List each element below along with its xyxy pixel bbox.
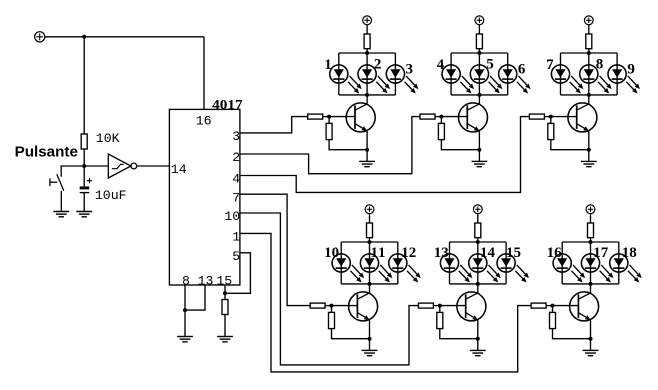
svg-text:4017: 4017 — [212, 98, 243, 113]
svg-text:16: 16 — [547, 245, 563, 261]
wire supply to R 10K — [83, 37, 85, 134]
resistor base group 1 — [308, 114, 323, 119]
node base Q2 — [439, 115, 443, 119]
resistor LED supply group 3 — [586, 34, 592, 49]
power supply symbol +V group 6 — [586, 205, 595, 214]
wire LED D17 branch — [590, 242, 592, 284]
wire resistor to LED rail group 2 — [478, 49, 480, 53]
wire LED D6 branch — [507, 53, 509, 95]
wire node to pulldown resistor group 3 — [550, 117, 552, 124]
wire main supply rail — [45, 36, 204, 38]
svg-text:6: 6 — [518, 62, 526, 78]
ground button — [53, 212, 69, 217]
wire resistor to LED rail group 3 — [588, 49, 590, 53]
wire collector to LED rail Q3 — [588, 95, 590, 104]
LED D8 — [580, 65, 612, 94]
node emitter ground junction Q6 — [589, 337, 593, 341]
ground pin 15 — [217, 337, 233, 342]
LED D2 — [358, 65, 390, 94]
node LED cathode rail group 4 — [341, 282, 398, 286]
node emitter ground junction Q3 — [587, 148, 591, 152]
wire node to pulldown resistor group 2 — [440, 117, 442, 124]
resistor base group 5 — [418, 303, 433, 308]
wire base resistor to node group 1 — [323, 116, 329, 118]
wire emitter node to ground group 1 — [366, 150, 368, 162]
LED D13 — [440, 254, 472, 283]
svg-text:7: 7 — [232, 190, 240, 205]
node LED cathode rail group 3 — [561, 93, 618, 97]
LED D1 — [330, 65, 362, 94]
wire resistor to LED rail group 6 — [590, 238, 592, 242]
wire pin 10 to Q5 base resistor — [240, 213, 419, 365]
resistor LED supply group 2 — [476, 34, 482, 49]
wire base resistor to node group 6 — [546, 305, 552, 307]
wire pulldown to emitter rail group 6 — [553, 329, 591, 339]
node LED cathode rail group 1 — [339, 93, 396, 97]
node LED cathode rail group 5 — [450, 282, 507, 286]
wire LED D18 branch — [618, 242, 620, 284]
wire node to base Q5 — [440, 305, 466, 307]
wire LED D15 branch — [505, 242, 507, 284]
svg-text:7: 7 — [546, 57, 554, 73]
LED D4 — [442, 65, 474, 94]
power supply symbol +V group 1 — [363, 16, 372, 25]
svg-text:12: 12 — [401, 245, 416, 261]
svg-text:10: 10 — [224, 209, 240, 224]
svg-text:Pulsante: Pulsante — [15, 143, 78, 160]
wire emitter Q3 — [588, 130, 590, 149]
resistor base pulldown group 5 — [437, 312, 443, 328]
resistor 10K — [81, 134, 87, 149]
node base Q3 — [549, 115, 553, 119]
resistor base group 2 — [420, 114, 435, 119]
resistor LED supply group 6 — [588, 223, 594, 238]
svg-text:1: 1 — [232, 230, 240, 245]
node emitter ground junction Q2 — [477, 148, 481, 152]
node base Q1 — [327, 115, 331, 119]
wire node to pulldown resistor group 5 — [439, 306, 441, 313]
LED D11 — [360, 254, 392, 283]
wire emitter node to ground group 3 — [588, 150, 590, 162]
wire LED D12 branch — [397, 242, 399, 284]
svg-text:11: 11 — [371, 245, 386, 261]
wire node to base Q4 — [332, 305, 358, 307]
node LED cathode rail group 6 — [562, 282, 619, 286]
wire pin 2 to Q2 base resistor — [240, 117, 420, 174]
wire LED D9 branch — [616, 53, 618, 95]
resistor base group 4 — [310, 303, 325, 308]
wire emitter node to ground group 2 — [478, 150, 480, 162]
wire power to resistor group 4 — [369, 214, 371, 223]
ground group 1 — [359, 161, 375, 166]
svg-text:10K: 10K — [96, 131, 120, 146]
resistor base pulldown group 4 — [329, 312, 335, 328]
wire power to resistor group 5 — [477, 214, 479, 223]
ground group 6 — [583, 350, 599, 355]
wire resistor to LED rail group 1 — [366, 49, 368, 53]
transistor Q6 — [570, 292, 599, 321]
ground capacitor — [76, 212, 92, 217]
wire pin 7 to Q4 base resistor — [240, 194, 310, 305]
inverter U2 schmitt — [108, 154, 136, 178]
wire base resistor to node group 3 — [544, 116, 550, 118]
resistor base pulldown group 2 — [438, 123, 444, 139]
LED D15 — [497, 254, 529, 283]
svg-text:9: 9 — [627, 62, 635, 78]
svg-text:8: 8 — [182, 274, 190, 289]
transistor Q1 — [346, 103, 375, 132]
node pin 15 junction — [223, 291, 227, 295]
wire LED D14 branch — [477, 242, 479, 284]
node LED cathode rail group 2 — [451, 93, 508, 97]
LED D17 — [581, 254, 613, 283]
svg-text:17: 17 — [593, 245, 609, 261]
wire emitter node to ground group 4 — [369, 339, 371, 351]
svg-text:3: 3 — [405, 62, 413, 78]
wire node to capacitor — [83, 166, 85, 186]
wire LED D4 branch — [450, 53, 452, 95]
svg-text:14: 14 — [171, 162, 187, 177]
LED D6 — [499, 65, 531, 94]
transistor Q4 — [349, 292, 378, 321]
wire node to base Q2 — [441, 116, 467, 118]
LED D9 — [608, 65, 640, 94]
wire resistor to ground pin 15 — [224, 315, 226, 337]
wire pulldown to emitter rail group 2 — [441, 140, 479, 150]
wire collector to LED rail Q4 — [369, 284, 371, 293]
node button/cap/inverter junction — [82, 164, 86, 168]
node base Q6 — [551, 304, 555, 308]
wire resistor to LED rail group 5 — [477, 238, 479, 242]
wire emitter Q2 — [478, 130, 480, 149]
wire power to resistor group 1 — [366, 25, 368, 34]
wire LED D2 branch — [366, 53, 368, 95]
wire node to inverter input — [84, 165, 108, 167]
resistor LED supply group 4 — [367, 223, 373, 238]
ground pin 8 — [177, 337, 193, 342]
node LED anode rail group 3 — [561, 51, 618, 55]
svg-text:13: 13 — [434, 245, 449, 261]
wire LED D16 branch — [561, 242, 563, 284]
node emitter ground junction Q4 — [368, 337, 372, 341]
node LED anode rail group 6 — [562, 240, 619, 244]
ground group 5 — [470, 350, 486, 355]
resistor base group 6 — [531, 303, 546, 308]
transistor Q2 — [459, 103, 488, 132]
wire node to base Q1 — [329, 116, 355, 118]
LED D10 — [332, 254, 364, 283]
power supply symbol +V group 2 — [475, 16, 484, 25]
resistor base pulldown group 6 — [550, 312, 556, 328]
wire LED D5 branch — [478, 53, 480, 95]
wire pulldown to emitter rail group 1 — [329, 140, 367, 150]
node base Q4 — [330, 304, 334, 308]
wire pin 5 to pin 15 junction — [225, 253, 250, 293]
ground group 4 — [362, 350, 378, 355]
svg-text:4: 4 — [232, 172, 240, 187]
svg-text:5: 5 — [232, 249, 240, 264]
wire power to resistor group 3 — [588, 25, 590, 34]
svg-text:8: 8 — [596, 57, 604, 73]
wire inverter output to pin 14 — [137, 165, 170, 167]
wire node to base Q3 — [551, 116, 577, 118]
wire emitter Q1 — [366, 130, 368, 149]
wire capacitor to ground — [83, 193, 85, 212]
wire emitter node to ground group 6 — [590, 339, 592, 351]
ground group 3 — [581, 161, 597, 166]
LED D14 — [469, 254, 501, 283]
resistor base pulldown group 1 — [326, 123, 332, 139]
power supply symbol +V group 3 — [584, 16, 593, 25]
wire collector to LED rail Q1 — [366, 95, 368, 104]
wire pin 8 to ground — [184, 285, 186, 336]
node LED anode rail group 1 — [339, 51, 396, 55]
wire LED D11 branch — [369, 242, 371, 284]
wire LED D8 branch — [588, 53, 590, 95]
wire pin 3 to Q1 base resistor — [240, 117, 308, 133]
node pin 8/13 junction — [183, 308, 187, 312]
node LED anode rail group 5 — [450, 240, 507, 244]
transistor Q5 — [457, 292, 486, 321]
wire pulldown to emitter rail group 5 — [440, 329, 478, 339]
power supply symbol +V main — [35, 32, 45, 42]
LED D5 — [470, 65, 502, 94]
wire LED D13 branch — [449, 242, 451, 284]
wire emitter Q5 — [477, 319, 479, 338]
svg-text:10uF: 10uF — [95, 188, 127, 203]
wire LED D7 branch — [560, 53, 562, 95]
svg-text:14: 14 — [480, 245, 496, 261]
resistor LED supply group 5 — [475, 223, 481, 238]
wire emitter node to ground group 5 — [477, 339, 479, 351]
svg-text:2: 2 — [232, 150, 240, 165]
wire pin 13 to junction — [185, 285, 205, 310]
power supply symbol +V group 4 — [365, 205, 374, 214]
transistor Q3 — [568, 103, 597, 132]
wire pulldown to emitter rail group 3 — [551, 140, 589, 150]
ground group 2 — [472, 161, 488, 166]
wire pulldown to emitter rail group 4 — [332, 329, 370, 339]
IC U1 4017 body — [169, 109, 240, 285]
svg-text:1: 1 — [324, 57, 332, 73]
svg-text:16: 16 — [196, 114, 212, 129]
LED D7 — [551, 65, 583, 94]
LED D3 — [386, 65, 418, 94]
wire resistor to LED rail group 4 — [369, 238, 371, 242]
node supply junction — [82, 35, 86, 39]
wire node to pulldown resistor group 6 — [552, 306, 554, 313]
wire LED D1 branch — [338, 53, 340, 95]
wire emitter Q6 — [590, 319, 592, 338]
wire collector to LED rail Q6 — [590, 284, 592, 293]
wire LED D10 branch — [340, 242, 342, 284]
svg-text:3: 3 — [232, 129, 240, 144]
LED D16 — [553, 254, 585, 283]
node LED anode rail group 2 — [451, 51, 508, 55]
wire LED D3 branch — [394, 53, 396, 95]
svg-text:2: 2 — [374, 57, 382, 73]
node base Q5 — [438, 304, 442, 308]
resistor pin 15 pulldown — [222, 300, 228, 315]
svg-text:15: 15 — [506, 245, 521, 261]
wire supply to pin 16 — [203, 37, 205, 110]
wire collector to LED rail Q5 — [477, 284, 479, 293]
wire power to resistor group 2 — [478, 25, 480, 34]
resistor base group 3 — [529, 114, 544, 119]
node LED anode rail group 4 — [341, 240, 398, 244]
node emitter ground junction Q5 — [476, 337, 480, 341]
wire emitter Q4 — [369, 319, 371, 338]
wire node to pulldown resistor group 4 — [331, 306, 333, 313]
wire pin 4 to Q3 base resistor — [240, 117, 530, 193]
wire node to base Q6 — [553, 305, 579, 307]
svg-text:5: 5 — [486, 57, 494, 73]
wire collector to LED rail Q2 — [478, 95, 480, 104]
resistor base pulldown group 3 — [548, 123, 554, 139]
capacitor 10uF polarized — [80, 178, 92, 193]
svg-text:18: 18 — [622, 245, 637, 261]
resistor LED supply group 1 — [364, 34, 370, 49]
wire node to button — [61, 166, 84, 177]
wire base resistor to node group 4 — [325, 305, 331, 307]
wire base resistor to node group 5 — [433, 305, 439, 307]
wire node to pulldown resistor group 1 — [328, 117, 330, 124]
pushbutton Pulsante — [50, 174, 64, 211]
node emitter ground junction Q1 — [365, 148, 369, 152]
power supply symbol +V group 5 — [473, 205, 482, 214]
wire pin 1 to Q6 base resistor — [240, 233, 531, 372]
LED D18 — [610, 254, 642, 283]
wire 10K to node — [83, 149, 85, 166]
wire power to resistor group 6 — [590, 214, 592, 223]
wire pin 15 to resistor — [224, 285, 226, 300]
LED D12 — [389, 254, 421, 283]
svg-text:4: 4 — [437, 57, 445, 73]
wire base resistor to node group 2 — [435, 116, 441, 118]
svg-text:10: 10 — [324, 245, 339, 261]
